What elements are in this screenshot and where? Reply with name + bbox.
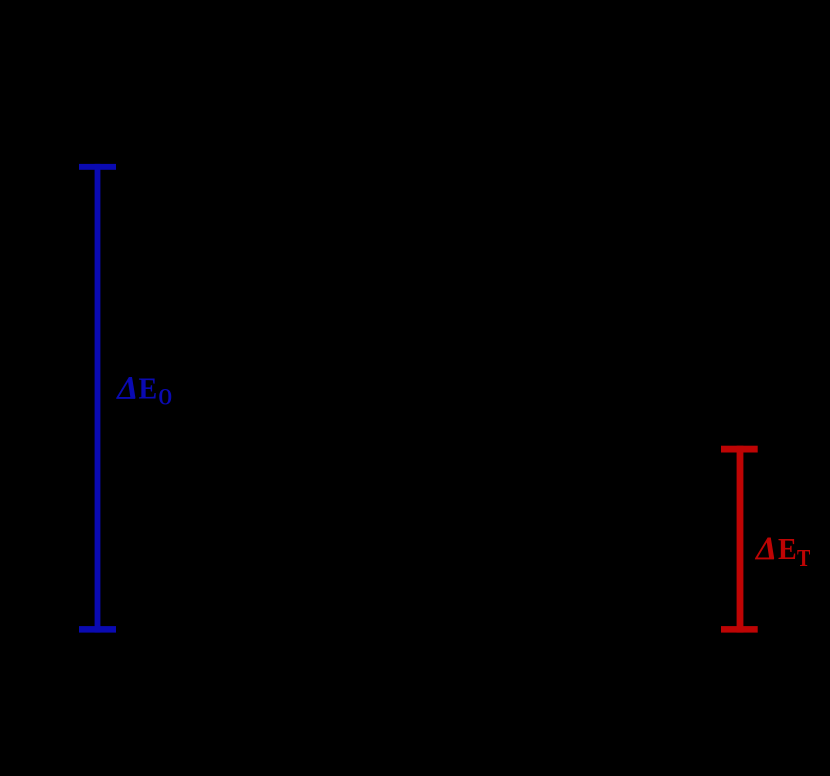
red top cap: [721, 446, 758, 453]
svg-text:T: T: [797, 544, 810, 571]
label ΔE_T (red): [754, 532, 810, 572]
blue bottom cap: [79, 626, 116, 633]
svg-text:Δ: Δ: [115, 371, 138, 406]
svg-text:E: E: [778, 533, 797, 566]
error bar ΔE_O (blue): [79, 164, 116, 633]
error bar ΔE_T (red): [721, 446, 758, 633]
red bottom cap: [721, 626, 758, 633]
red vertical line: [737, 446, 744, 633]
svg-text:E: E: [139, 373, 158, 406]
blue top cap: [79, 164, 116, 170]
svg-text:Δ: Δ: [754, 532, 777, 567]
label ΔE_O (blue): [115, 371, 172, 410]
svg-text:O: O: [158, 386, 172, 411]
blue vertical line: [95, 164, 101, 633]
